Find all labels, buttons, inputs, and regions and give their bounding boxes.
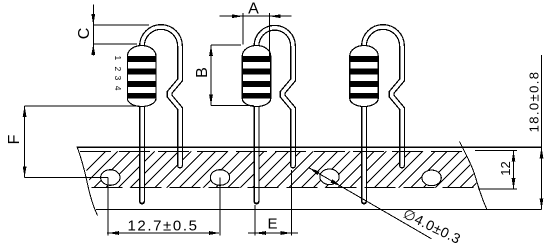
tape bottom edge: [96, 208, 542, 210]
resistor R2 body: [242, 46, 271, 107]
dimension E: [248, 170, 298, 236]
svg-text:2: 2: [113, 67, 123, 72]
resistor R1 body: [127, 46, 156, 107]
dimension B: [194, 45, 253, 106]
tape left break line: [77, 147, 98, 216]
resistor R1 hairpin lead wire: [142, 27, 180, 166]
resistor R2 main lead wire: [254, 100, 260, 202]
leader dia 4.0±0.3: [309, 168, 463, 247]
svg-text:C: C: [76, 28, 93, 40]
dimension 12.7±0.5: [107, 178, 220, 236]
svg-text:A: A: [248, 1, 259, 18]
svg-text:4: 4: [113, 86, 123, 91]
svg-text:B: B: [194, 67, 211, 78]
band numbers 1 2 3 4: [113, 56, 123, 91]
sprocket hole 1: [101, 170, 120, 186]
tape right break line: [460, 142, 488, 210]
svg-text:12: 12: [498, 161, 513, 175]
svg-text:E: E: [267, 216, 277, 233]
tape hatch: [68, 151, 509, 189]
svg-text:18.0±0.8: 18.0±0.8: [527, 71, 542, 133]
tape hatch bottom dashed line: [92, 187, 479, 189]
resistor R2 hairpin lead wire: [257, 28, 294, 166]
svg-text:3: 3: [113, 76, 123, 81]
dimension C: [76, 5, 149, 56]
svg-text:1: 1: [113, 56, 123, 61]
resistor R3 hairpin lead wire: [364, 27, 402, 166]
tape hatch top dashed line: [80, 150, 465, 152]
dimension 18.0±0.8: [527, 55, 544, 209]
resistor R3 body: [350, 46, 379, 107]
resistor R3 main lead wire: [361, 100, 367, 202]
tape top edge: [77, 146, 542, 148]
sprocket hole 4: [422, 170, 441, 186]
sprocket hole 2: [210, 170, 229, 186]
dimension A: [220, 1, 292, 58]
dimension 12: [475, 151, 517, 190]
svg-text:12.7±0.5: 12.7±0.5: [127, 218, 198, 235]
sprocket hole 3: [320, 169, 339, 185]
svg-text:F: F: [6, 134, 23, 144]
resistor R1 main lead wire: [139, 100, 145, 202]
dimension F: [6, 106, 140, 178]
